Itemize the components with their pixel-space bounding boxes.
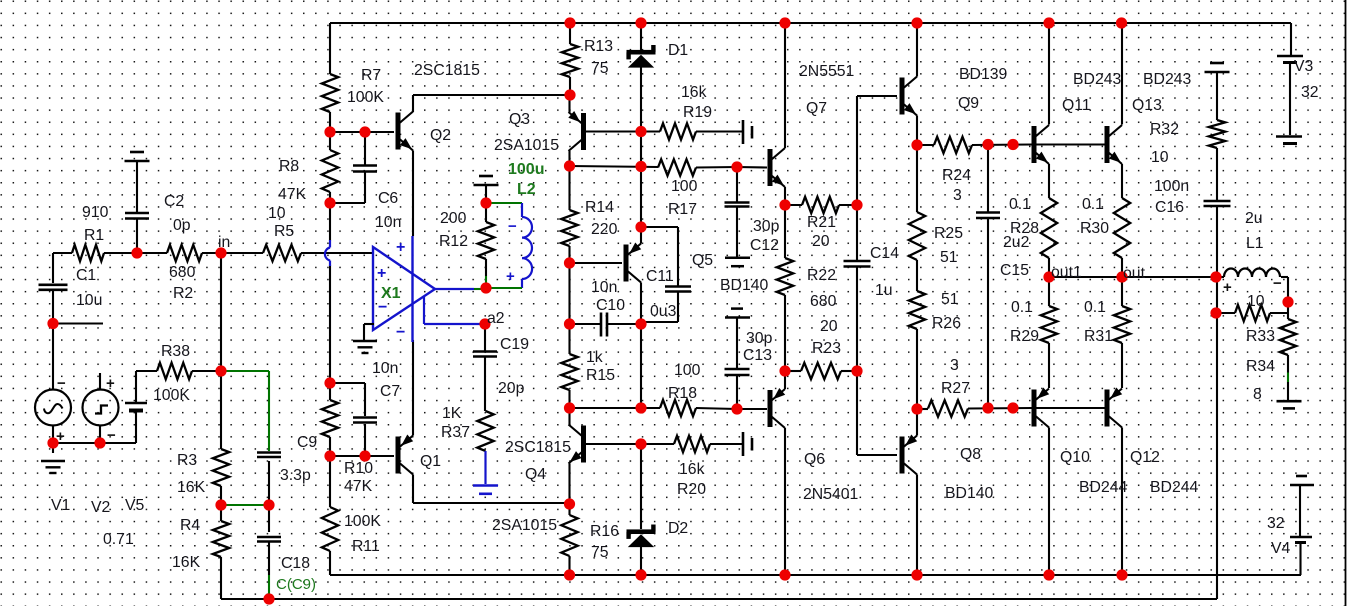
svg-text:100K: 100K: [344, 513, 381, 530]
svg-text:−: −: [1273, 275, 1282, 292]
svg-text:20: 20: [812, 233, 830, 250]
svg-text:−: −: [508, 218, 517, 235]
svg-text:0u3: 0u3: [650, 303, 677, 320]
svg-text:Q7: Q7: [806, 100, 827, 117]
svg-text:C13: C13: [743, 347, 772, 364]
svg-text:R31: R31: [1084, 328, 1113, 345]
svg-text:R18: R18: [668, 385, 697, 402]
svg-text:680: 680: [810, 293, 837, 310]
svg-text:16K: 16K: [177, 479, 206, 496]
svg-text:1k: 1k: [586, 349, 603, 366]
svg-text:2N5401: 2N5401: [803, 486, 859, 503]
svg-text:R27: R27: [941, 380, 970, 397]
svg-text:V3: V3: [1294, 58, 1314, 75]
svg-text:C11: C11: [646, 268, 674, 285]
svg-text:100: 100: [671, 178, 698, 195]
svg-text:R5: R5: [274, 223, 294, 240]
svg-text:R34: R34: [1246, 358, 1275, 375]
svg-text:R23: R23: [812, 340, 841, 357]
svg-text:R3: R3: [177, 452, 197, 469]
svg-text:X1: X1: [381, 285, 401, 302]
svg-text:47K: 47K: [344, 478, 373, 495]
svg-text:2SC1815: 2SC1815: [414, 62, 480, 79]
svg-text:+: +: [506, 268, 515, 285]
svg-text:0.1: 0.1: [1011, 299, 1033, 316]
svg-text:30p: 30p: [746, 330, 773, 347]
svg-text:Q1: Q1: [420, 453, 441, 470]
svg-text:+: +: [377, 265, 386, 282]
svg-text:+: +: [106, 375, 115, 392]
svg-text:0.71: 0.71: [103, 531, 134, 548]
svg-text:51: 51: [941, 291, 959, 308]
svg-text:75: 75: [591, 60, 609, 77]
svg-text:R19: R19: [683, 104, 712, 121]
svg-text:10: 10: [1247, 293, 1265, 310]
svg-text:Q12: Q12: [1130, 449, 1160, 466]
svg-text:−: −: [57, 375, 66, 392]
svg-text:C19: C19: [500, 336, 529, 353]
svg-text:1K: 1K: [442, 405, 462, 422]
svg-text:R17: R17: [668, 201, 697, 218]
svg-text:2SC1815: 2SC1815: [505, 439, 571, 456]
svg-text:R16: R16: [590, 523, 619, 540]
svg-text:R12: R12: [439, 233, 468, 250]
svg-text:0.1: 0.1: [1084, 299, 1106, 316]
svg-text:10n: 10n: [591, 279, 617, 296]
svg-text:R4: R4: [180, 517, 200, 534]
svg-text:16K: 16K: [172, 554, 201, 571]
svg-text:R1: R1: [84, 227, 104, 244]
svg-text:200: 200: [440, 210, 467, 227]
svg-text:C7: C7: [380, 383, 400, 400]
svg-text:BD243: BD243: [1073, 71, 1122, 88]
svg-text:100: 100: [674, 362, 701, 379]
svg-text:R2: R2: [173, 285, 193, 302]
svg-text:Q11: Q11: [1062, 97, 1091, 114]
svg-text:R26: R26: [932, 315, 961, 332]
svg-text:C15: C15: [1000, 262, 1029, 279]
svg-text:10n: 10n: [372, 360, 398, 377]
svg-text:32: 32: [1267, 515, 1285, 532]
svg-text:2SA1015: 2SA1015: [494, 137, 559, 154]
svg-text:Q3: Q3: [509, 111, 530, 128]
svg-text:C10: C10: [596, 297, 625, 314]
svg-text:100u: 100u: [508, 161, 544, 178]
svg-text:R24: R24: [942, 167, 971, 184]
svg-text:10: 10: [268, 205, 286, 222]
svg-text:R32: R32: [1150, 121, 1179, 138]
svg-text:20p: 20p: [498, 380, 525, 397]
svg-text:Q10: Q10: [1060, 449, 1090, 466]
svg-text:16k: 16k: [681, 84, 707, 101]
svg-text:BD243: BD243: [1143, 71, 1192, 88]
svg-text:R13: R13: [584, 38, 613, 55]
svg-text:2N5551: 2N5551: [799, 63, 855, 80]
svg-text:C1: C1: [76, 267, 96, 284]
svg-text:1u: 1u: [875, 282, 893, 299]
svg-text:C6: C6: [378, 190, 398, 207]
svg-text:8: 8: [1253, 386, 1262, 403]
svg-text:C18: C18: [281, 555, 310, 572]
svg-text:R11: R11: [352, 538, 380, 555]
svg-text:L2: L2: [517, 181, 536, 198]
svg-text:R33: R33: [1246, 328, 1275, 345]
svg-text:D2: D2: [668, 520, 688, 537]
svg-text:R14: R14: [585, 199, 614, 216]
svg-text:+: +: [1223, 279, 1232, 296]
svg-text:BD139: BD139: [959, 66, 1008, 83]
svg-text:Q4: Q4: [525, 466, 546, 483]
svg-text:out1: out1: [1051, 264, 1082, 281]
svg-text:Q6: Q6: [804, 451, 825, 468]
svg-text:Q2: Q2: [430, 127, 451, 144]
svg-text:−: −: [107, 427, 116, 444]
svg-text:R21: R21: [807, 214, 836, 231]
svg-text:Q8: Q8: [960, 446, 981, 463]
svg-text:C14: C14: [870, 245, 899, 262]
svg-text:R7: R7: [361, 67, 381, 84]
svg-text:C12: C12: [750, 237, 779, 254]
svg-text:51: 51: [940, 249, 958, 266]
svg-text:R25: R25: [934, 225, 963, 242]
svg-text:a2: a2: [487, 310, 505, 327]
svg-text:BD140: BD140: [945, 485, 994, 502]
svg-text:680: 680: [169, 264, 196, 281]
svg-text:R30: R30: [1080, 220, 1109, 237]
svg-text:3.3p: 3.3p: [280, 467, 311, 484]
svg-text:in: in: [218, 234, 230, 251]
svg-text:−: −: [396, 324, 405, 341]
svg-text:0p: 0p: [173, 217, 191, 234]
svg-text:10u: 10u: [76, 292, 102, 309]
svg-text:0.1: 0.1: [1082, 196, 1104, 213]
svg-text:20: 20: [820, 318, 838, 335]
svg-text:0.1: 0.1: [1009, 196, 1031, 213]
svg-text:75: 75: [591, 544, 609, 561]
svg-text:3: 3: [950, 357, 959, 374]
svg-text:Q9: Q9: [958, 95, 979, 112]
svg-text:R20: R20: [677, 481, 706, 498]
svg-text:Q13: Q13: [1132, 97, 1162, 114]
svg-text:C9: C9: [297, 434, 317, 451]
svg-text:C2: C2: [164, 193, 184, 210]
svg-text:BD244: BD244: [1079, 479, 1128, 496]
svg-text:10: 10: [1151, 149, 1169, 166]
svg-text:BD244: BD244: [1150, 479, 1199, 496]
svg-text:47K: 47K: [278, 186, 307, 203]
svg-text:R22: R22: [807, 267, 836, 284]
svg-text:R38: R38: [161, 343, 190, 360]
svg-text:2u: 2u: [1245, 210, 1263, 227]
svg-text:+: +: [396, 239, 405, 256]
svg-text:R29: R29: [1010, 328, 1039, 345]
svg-text:2SA1015: 2SA1015: [492, 517, 557, 534]
svg-text:30p: 30p: [753, 218, 780, 235]
svg-text:3: 3: [953, 187, 962, 204]
svg-text:32: 32: [1301, 84, 1319, 101]
svg-text:V5: V5: [125, 497, 145, 514]
svg-text:BD140: BD140: [720, 277, 769, 294]
svg-text:R15: R15: [586, 367, 615, 384]
svg-text:R10: R10: [344, 460, 373, 477]
svg-text:10n: 10n: [375, 214, 401, 231]
svg-text:100K: 100K: [153, 387, 190, 404]
svg-text:V2: V2: [91, 499, 110, 516]
svg-text:220: 220: [591, 221, 618, 238]
svg-text:C16: C16: [1155, 199, 1184, 216]
svg-text:2u2: 2u2: [1003, 234, 1029, 251]
svg-text:R37: R37: [441, 424, 470, 441]
svg-text:D1: D1: [668, 42, 688, 59]
svg-text:L1: L1: [1246, 235, 1264, 252]
svg-text:V1: V1: [51, 497, 71, 514]
svg-text:C(C9): C(C9): [276, 576, 316, 593]
svg-text:910: 910: [82, 204, 109, 221]
svg-text:16k: 16k: [679, 461, 705, 478]
svg-text:100K: 100K: [347, 89, 384, 106]
svg-text:100n: 100n: [1154, 178, 1189, 195]
svg-text:V4: V4: [1271, 540, 1291, 557]
svg-text:R8: R8: [279, 158, 299, 175]
svg-text:Q5: Q5: [692, 252, 713, 269]
svg-text:out: out: [1123, 265, 1146, 282]
